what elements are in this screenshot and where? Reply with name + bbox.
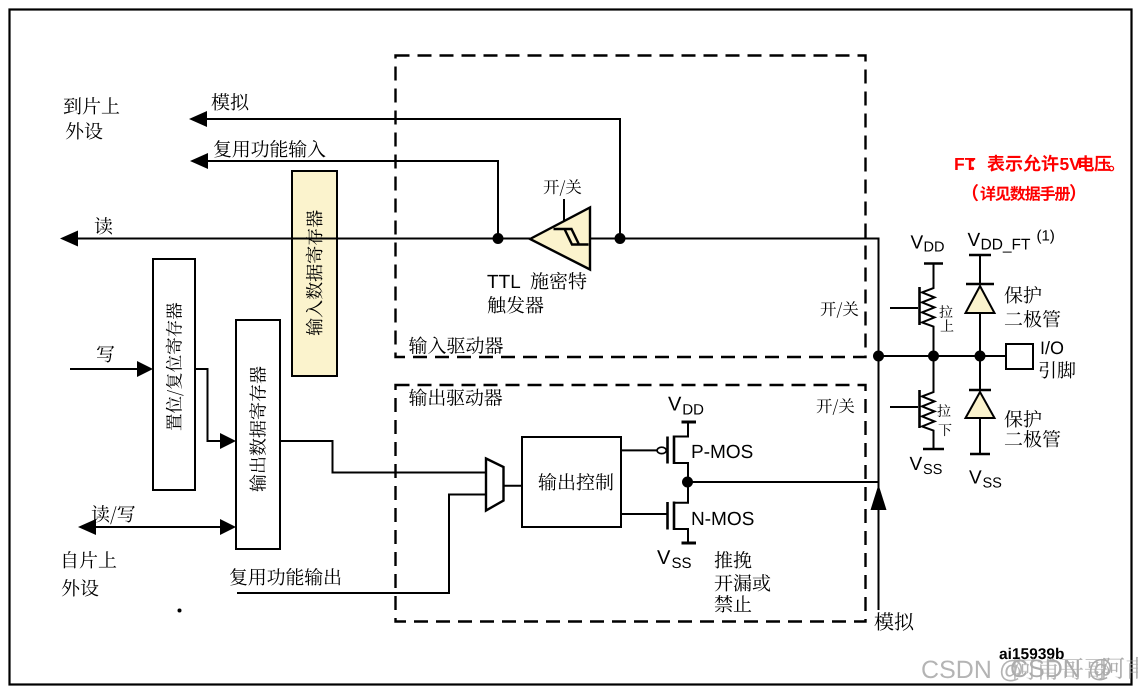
label 读/写 [92,505,135,524]
wire write-line [70,368,139,370]
label input-driver 输入驱动器 [409,336,503,354]
junction dot diode node [975,351,986,362]
label TTL 施密特 触发器 [487,272,586,290]
wire pullup-control-stub [890,307,918,309]
label 拉下 [937,404,950,417]
label output-driver 输出驱动器 [409,388,502,406]
arrowhead alternate-function-input [190,153,208,169]
power VDD_FT bar [969,254,991,257]
wire io-line [879,355,1007,357]
label I/O 引脚 [1042,341,1063,354]
wire ODR-to-mux [280,441,486,473]
wire control-to-nmos-gate [621,513,667,515]
label ai15939b [1000,648,1064,659]
transistor P-MOS gate bar [666,437,669,464]
label VSS (N-MOS) [657,550,691,568]
wire diode2-to-vss [979,418,981,454]
wire diode1-to-io [979,313,981,356]
wire schmitt-on/off-control [563,199,565,221]
label VSS (pull-down) [910,457,942,474]
mux selector [486,459,504,511]
I/O pin pad box [1006,344,1033,369]
label read 读 [95,217,113,234]
wire mos-output [688,481,879,483]
ground VSS bar (pull-down) [923,448,944,451]
diode D2 cathode bar [969,389,991,392]
wire analog-input [205,119,620,239]
wire vddft-to-diode [979,255,981,284]
wire schmitt-output to right edge [590,239,879,357]
stray dot artifact [178,609,182,613]
wire io-to-diode2 [979,356,981,389]
schmitt trigger U1 body [530,208,590,270]
label analog 模拟 (bottom) [875,612,914,631]
label VDD (P-MOS) [668,397,703,415]
label on/off 开/关 (pull-up) [821,301,859,318]
wire analog-io-vertical [878,356,880,610]
wire nmos-source-to-vss [674,529,688,542]
junction dot pullup node [928,351,939,362]
wire nmos-drain [674,482,688,503]
schmitt hysteresis symbol [554,229,589,245]
resistor pull-down [922,356,935,449]
label on/off 开/关 (pull-down) [817,398,855,415]
label 复用功能输出 [230,568,341,586]
junction dot AF-input node [493,233,504,244]
ground VSS bar (diode) [970,453,990,456]
pullup gate bar [918,287,921,325]
wire pmos-drain [674,463,688,482]
label output control 输出控制 [539,473,614,491]
arrowhead read/write-left [78,519,96,535]
label write 写 [97,346,114,363]
arrowhead set/reset-link [220,433,236,449]
label P-MOS [693,445,753,459]
bit set/reset register box [153,259,195,490]
label schmitt on/off 开/关 [544,179,582,196]
transistor P-MOS channel bar [673,436,676,465]
wire pulldown-control-stub [890,406,918,408]
transistor N-MOS channel bar [673,502,676,531]
wire alternate-function-output [237,495,486,594]
wire read/write-line [94,526,221,528]
diode D1 cathode bar [966,283,994,286]
input driver dashed box [396,56,866,358]
arrowhead write [137,361,153,377]
wire pmos-source-to-vdd [674,423,688,437]
wire alternate-function-input [205,161,498,239]
junction dot analog node [615,233,626,244]
output driver dashed box [396,385,866,622]
pulldown gate bar [918,390,921,428]
label 自片上外设 [64,551,116,569]
wire read-line [76,238,530,240]
arrowhead analog-up [871,485,887,511]
watermark CSDN copy1 [922,658,1107,682]
bit set/reset register label 置位/复位寄存器 [166,303,184,431]
label 保护二极管 (bottom) [1005,410,1042,428]
output control box [522,437,621,527]
transistor N-MOS gate bar [666,502,669,530]
wire mux-to-output-control [504,485,523,487]
diode D1 body [966,286,995,313]
junction dot io-left [873,351,884,362]
arrowhead read [60,231,78,247]
note FT red line1 [955,155,1114,172]
watermark CSDN copy2 [1011,657,1138,681]
output data register label 输出数据寄存器 [249,367,266,492]
diode D2 body [966,392,995,418]
junction dot mos-drain node [682,477,693,488]
wire set/reset-to-output-register [195,369,221,441]
label 到片上外设 [64,97,119,115]
label 拉上 [939,305,952,318]
output data register box [236,320,280,549]
power VDD bar (P-MOS) [682,421,697,424]
input data register box [292,171,337,376]
label VDD (pull-up) [911,235,944,251]
pmos gate bubble [657,447,666,453]
ground VSS bar (N-MOS) [682,542,697,545]
label 复用功能输入 [214,140,326,158]
resistor pull-up [922,264,935,357]
label 推挽/开漏或/禁止 [715,551,752,569]
wire control-to-pmos-gate [621,449,657,451]
label analog 模拟 [212,93,249,111]
arrowhead analog-input [189,111,207,127]
arrowhead read/write-right [220,519,236,535]
label N-MOS [693,512,754,526]
power VDD bar (pull-up) [924,262,943,265]
label VDD_FT (1) [968,230,1054,253]
input data register label 输入数据寄存器 [306,210,323,335]
label VSS (diode) [969,470,1001,487]
label 保护二极管 (top) [1005,286,1042,304]
note FT red line2 [973,184,1075,201]
